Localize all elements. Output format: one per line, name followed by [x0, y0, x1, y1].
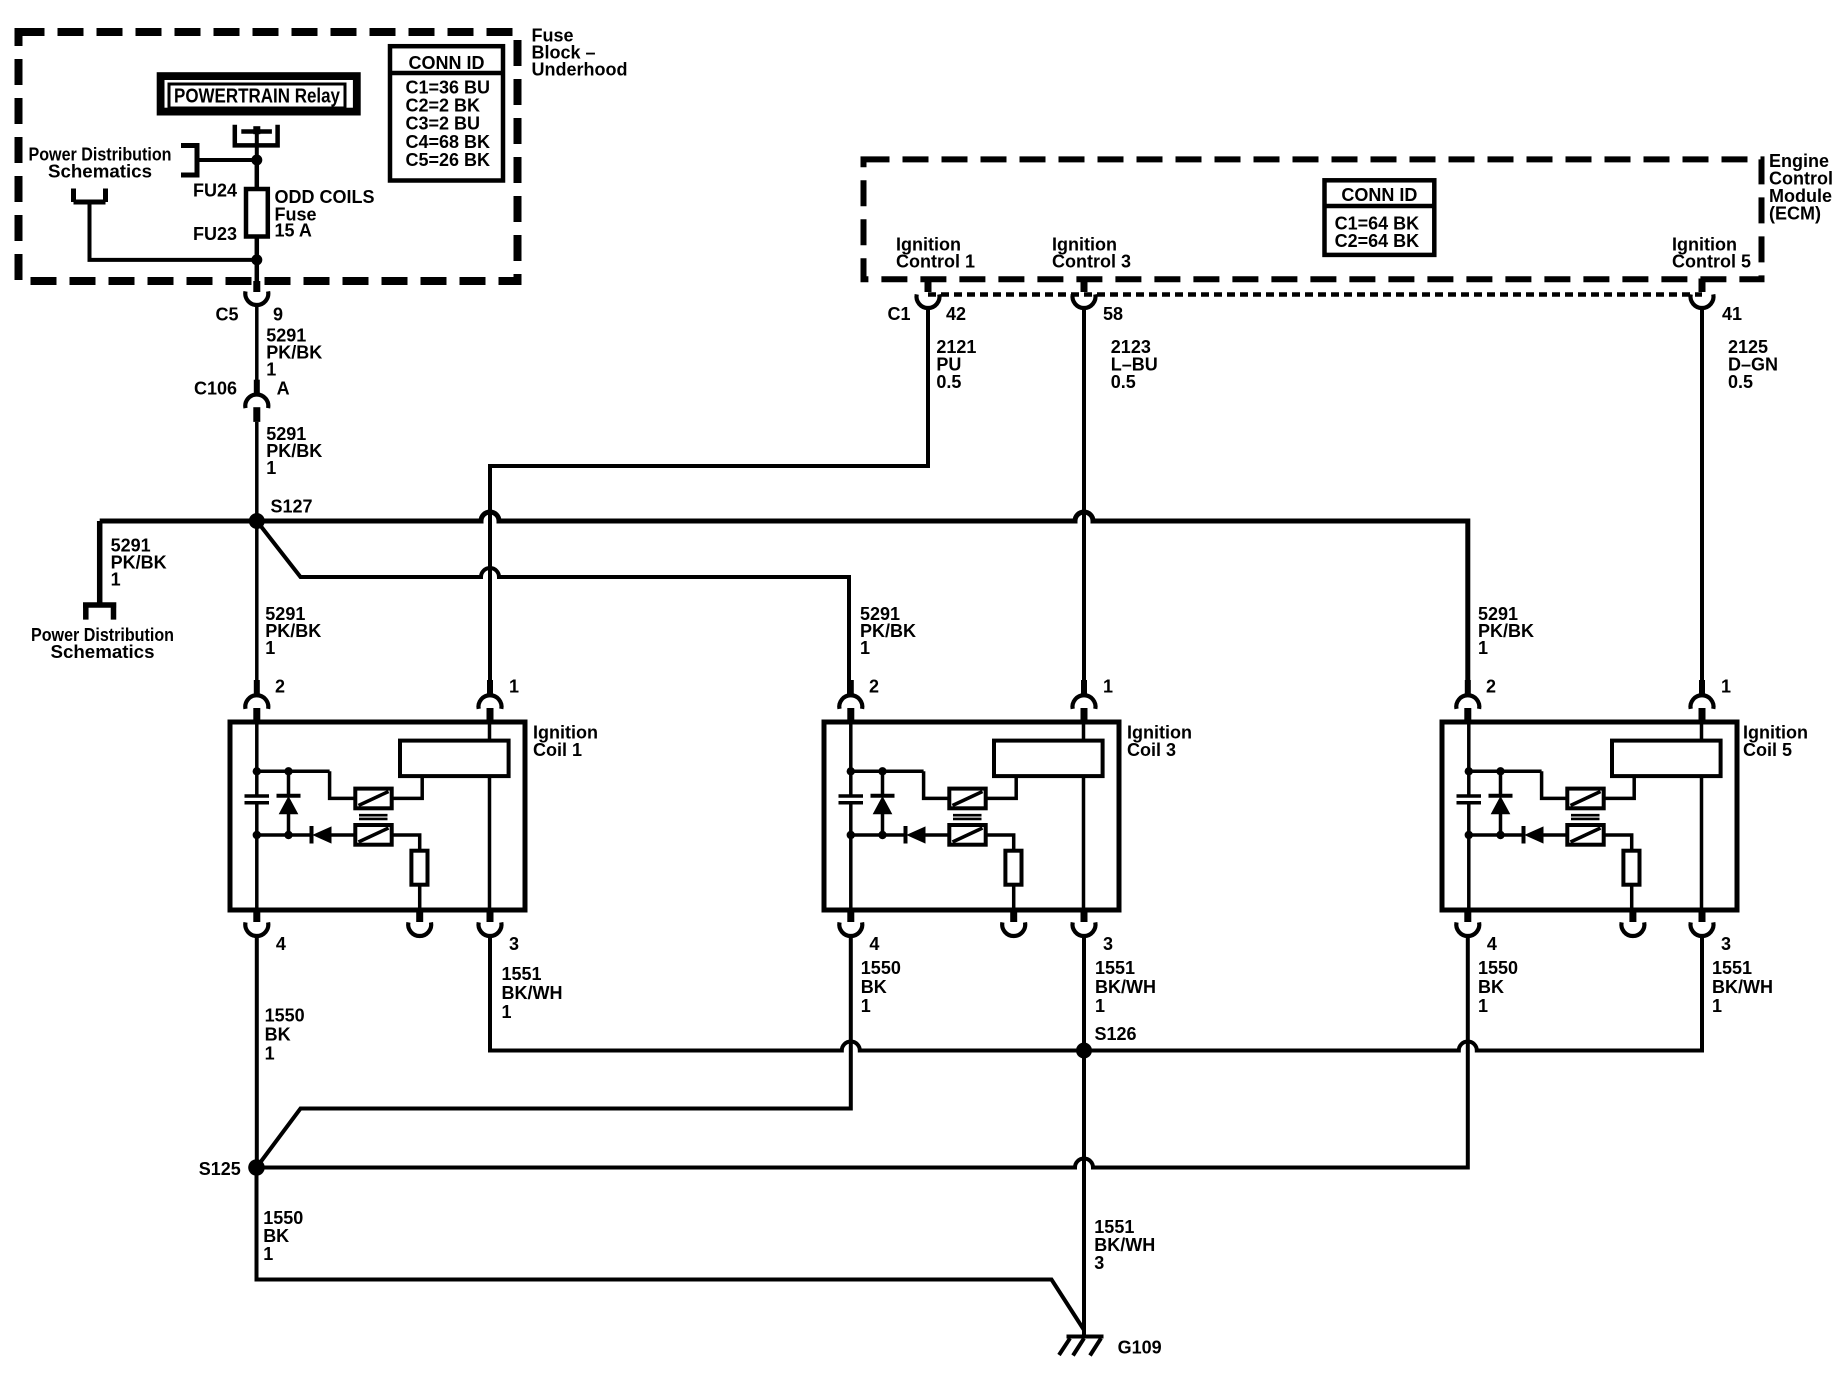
svg-text:1: 1	[509, 677, 519, 697]
svg-text:1550: 1550	[1478, 958, 1518, 978]
svg-text:BK/WH: BK/WH	[1095, 977, 1156, 997]
splice S126	[1076, 1043, 1092, 1059]
svg-text:FU24: FU24	[193, 181, 237, 201]
svg-text:BK/WH: BK/WH	[502, 983, 563, 1003]
svg-text:4: 4	[276, 934, 286, 954]
svg-text:1: 1	[1478, 638, 1488, 658]
svg-text:1550: 1550	[263, 1208, 303, 1228]
wire S125 to coil5 pin4 with hop over ground wire	[257, 937, 1468, 1168]
junction node under relay	[251, 155, 262, 166]
svg-text:3: 3	[1103, 934, 1113, 954]
svg-text:3: 3	[509, 934, 519, 954]
splice S127	[249, 513, 265, 529]
off-page bracket (S127 left)	[83, 605, 116, 620]
svg-text:BK: BK	[861, 977, 887, 997]
svg-text:POWERTRAIN Relay: POWERTRAIN Relay	[174, 86, 341, 108]
relay K contact symbol	[235, 125, 278, 146]
svg-text:A: A	[277, 379, 290, 399]
wire S125 down and over to ground G109	[257, 1168, 1085, 1331]
off-page bracket lower (under Schematics)	[74, 189, 106, 203]
wire C106 to S127	[255, 422, 259, 521]
svg-text:1: 1	[1478, 996, 1488, 1016]
svg-text:BK: BK	[1478, 977, 1504, 997]
svg-text:C106: C106	[194, 379, 237, 399]
svg-text:G109: G109	[1118, 1338, 1162, 1358]
svg-text:1: 1	[266, 458, 276, 478]
svg-text:C1=36 BU: C1=36 BU	[406, 78, 491, 98]
connector pin 41	[1699, 279, 1706, 293]
svg-text:1: 1	[1103, 677, 1113, 697]
svg-text:3: 3	[1721, 934, 1731, 954]
svg-text:C4=68 BK: C4=68 BK	[406, 132, 491, 152]
svg-text:2: 2	[1486, 677, 1496, 697]
svg-text:4: 4	[869, 934, 879, 954]
coil5 middle secondary connector	[1629, 910, 1636, 922]
svg-text:1551: 1551	[1095, 958, 1135, 978]
svg-text:(ECM): (ECM)	[1769, 204, 1821, 224]
svg-text:1: 1	[1095, 996, 1105, 1016]
svg-text:0.5: 0.5	[1111, 372, 1136, 392]
splice S125	[248, 1159, 265, 1176]
coil3 pin 3 connector	[1081, 910, 1088, 922]
off-page bracket to Power Distribution (upper)	[181, 143, 197, 178]
svg-text:FU23: FU23	[193, 224, 237, 244]
svg-text:S125: S125	[199, 1159, 241, 1179]
svg-text:1551: 1551	[1712, 958, 1752, 978]
svg-text:2: 2	[275, 677, 285, 697]
svg-text:42: 42	[946, 304, 966, 324]
svg-text:4: 4	[1487, 934, 1497, 954]
ignition coil 3	[824, 722, 1119, 910]
svg-text:C1: C1	[887, 304, 910, 324]
coil5 pin 1 connector	[1699, 680, 1705, 695]
svg-text:1550: 1550	[861, 958, 901, 978]
svg-text:1: 1	[265, 1044, 275, 1064]
wire coil1 pin4 down to S125	[255, 937, 259, 1168]
coil5 pin 2 connector	[1465, 680, 1471, 695]
coil5 pin 4 connector	[1464, 910, 1471, 922]
wire coil3 pin4 to S125	[257, 937, 851, 1168]
svg-text:1: 1	[861, 996, 871, 1016]
connector pin 58	[1081, 279, 1088, 293]
svg-text:C2=64 BK: C2=64 BK	[1335, 231, 1420, 251]
svg-text:C3=2 BU: C3=2 BU	[406, 114, 481, 134]
svg-text:1: 1	[860, 638, 870, 658]
svg-text:CONN ID: CONN ID	[409, 53, 485, 73]
connector C1 pin 42	[925, 279, 932, 293]
coil3 pin 4 connector	[847, 910, 854, 922]
left branch down to off-page bracket	[97, 521, 103, 603]
svg-text:0.5: 0.5	[1728, 372, 1753, 392]
coil1 pin 3 connector	[487, 910, 494, 922]
coil5 pin 3 connector	[1699, 910, 1706, 922]
wire ECM 41 to coil5 pin1	[1700, 309, 1704, 680]
svg-text:1: 1	[1721, 677, 1731, 697]
svg-text:Schematics: Schematics	[51, 642, 155, 662]
svg-text:Schematics: Schematics	[48, 162, 152, 182]
svg-text:Coil 1: Coil 1	[533, 740, 582, 760]
wire ECM 58 to coil3 pin1	[1082, 309, 1086, 680]
ignition coil 1	[230, 722, 525, 910]
wire ECM C1 42 to coil1 pin1	[490, 309, 928, 680]
svg-text:1550: 1550	[265, 1006, 305, 1026]
svg-text:41: 41	[1722, 304, 1742, 324]
svg-text:CONN ID: CONN ID	[1341, 185, 1417, 205]
wire S127 down to coil1 pin2	[255, 521, 259, 680]
CONN ID table (fuse block)	[390, 46, 503, 180]
coil3 middle secondary connector	[1010, 910, 1017, 922]
svg-text:Coil 3: Coil 3	[1127, 740, 1176, 760]
svg-text:Control 1: Control 1	[896, 252, 975, 272]
ground G109	[1067, 1335, 1104, 1339]
main horizontal wire S127 to coil5 pin2 with hops	[100, 512, 1468, 694]
coil1 pin 4 connector	[253, 910, 260, 922]
wire C5 to C106	[255, 306, 259, 380]
svg-text:BK: BK	[263, 1226, 289, 1246]
svg-text:9: 9	[273, 305, 283, 325]
wire S126 to coil5 pin3	[1084, 937, 1702, 1051]
CONN ID table (ECM)	[1325, 180, 1435, 255]
ECM dashed box	[864, 159, 1762, 279]
svg-text:BK/WH: BK/WH	[1094, 1235, 1155, 1255]
fuse block dashed box	[19, 32, 518, 281]
svg-text:1: 1	[263, 1244, 273, 1264]
svg-text:2: 2	[869, 677, 879, 697]
ignition coil 5	[1442, 722, 1737, 910]
svg-text:1: 1	[502, 1002, 512, 1022]
svg-text:BK/WH: BK/WH	[1712, 977, 1773, 997]
svg-text:S126: S126	[1095, 1024, 1137, 1044]
svg-text:1551: 1551	[502, 964, 542, 984]
svg-text:3: 3	[1094, 1253, 1104, 1273]
svg-text:1: 1	[1712, 996, 1722, 1016]
ECM connector face dotted line	[928, 292, 1702, 297]
svg-text:15 A: 15 A	[275, 221, 312, 241]
svg-text:C5: C5	[215, 305, 238, 325]
junction node fuse bottom	[251, 254, 262, 265]
svg-text:S127: S127	[271, 497, 313, 517]
svg-text:BK: BK	[265, 1025, 291, 1045]
fuse ODD COILS 15A	[255, 160, 260, 189]
coil3 pin 2 connector	[848, 680, 854, 695]
svg-text:1: 1	[111, 570, 121, 590]
wire coil3 pin3 down through S126 to ground	[1082, 937, 1086, 1337]
POWERTRAIN Relay label box	[161, 76, 357, 112]
svg-text:Control 5: Control 5	[1672, 252, 1751, 272]
svg-text:0.5: 0.5	[936, 372, 961, 392]
svg-text:Control 3: Control 3	[1052, 252, 1131, 272]
svg-text:1551: 1551	[1094, 1217, 1134, 1237]
svg-text:1: 1	[265, 638, 275, 658]
wire bracket to relay junction	[197, 158, 257, 162]
svg-text:C5=26 BK: C5=26 BK	[406, 150, 491, 170]
wire coil1 pin3 to S126	[490, 937, 1084, 1051]
diagonal S127 to coil3 branch	[257, 521, 849, 694]
coil1 pin 2 connector	[254, 680, 260, 695]
wire lower bracket to fuse bottom junction	[90, 202, 257, 260]
svg-text:C2=2 BK: C2=2 BK	[406, 96, 481, 116]
connector C106 pin A	[254, 380, 260, 394]
svg-text:Underhood: Underhood	[532, 60, 628, 80]
svg-text:1: 1	[266, 360, 276, 380]
coil3 pin 1 connector	[1081, 680, 1087, 695]
coil1 middle secondary connector	[416, 910, 423, 922]
svg-text:Coil 5: Coil 5	[1743, 740, 1792, 760]
svg-text:58: 58	[1103, 304, 1123, 324]
connector C5 pin 9	[253, 281, 260, 292]
coil1 pin 1 connector	[487, 680, 493, 695]
